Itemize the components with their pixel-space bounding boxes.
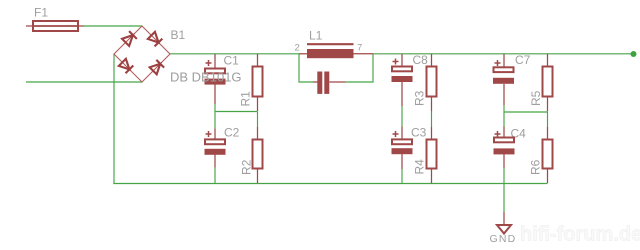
diode D bottom-right xyxy=(150,60,164,74)
diamond thin edges xyxy=(114,26,170,82)
wire fuse to bridge top xyxy=(84,25,143,27)
svg-text:C1: C1 xyxy=(224,54,240,68)
wire bridge left vertex down to bottom rail xyxy=(113,54,115,184)
svg-text:R3: R3 xyxy=(413,90,427,106)
inductor L1 xyxy=(299,44,373,58)
wire bottom rail xyxy=(113,183,547,185)
capacitor C2 xyxy=(205,129,226,168)
svg-text:R1: R1 xyxy=(239,91,253,107)
capacitor C7 xyxy=(493,54,514,105)
capacitor C1 xyxy=(205,54,226,104)
capacitor C8 xyxy=(392,54,413,106)
svg-text:R4: R4 xyxy=(413,159,427,175)
wire AC2 left to bridge bottom xyxy=(26,81,143,83)
capacitor C4 xyxy=(494,127,515,169)
svg-text:hifi-forum.de: hifi-forum.de xyxy=(520,224,640,246)
capacitor C3 xyxy=(392,127,413,170)
wire tie line section3 xyxy=(504,111,548,113)
resistor R3 xyxy=(427,54,437,111)
svg-text:GND: GND xyxy=(490,233,517,245)
svg-text:B1: B1 xyxy=(171,28,186,42)
wire C7 bottom net xyxy=(503,105,505,112)
junction dot right end xyxy=(631,51,637,57)
wire C4 top net xyxy=(503,112,505,127)
wire tie line section1 xyxy=(215,111,258,113)
diode D bottom-left xyxy=(119,59,133,73)
svg-text:F1: F1 xyxy=(34,6,48,20)
wire top rail A bridge to L1 xyxy=(170,53,299,55)
wire C3 bottom net xyxy=(401,169,403,184)
svg-text:R5: R5 xyxy=(529,90,543,106)
wire tank left drop xyxy=(299,54,313,82)
wire C1 bottom net xyxy=(214,104,216,112)
bridge rectifier B1 xyxy=(114,26,170,82)
fuse F1 xyxy=(26,21,84,31)
svg-text:7: 7 xyxy=(357,43,362,54)
svg-text:C7: C7 xyxy=(515,53,531,67)
wire tank right drop xyxy=(346,54,374,82)
diode D top-left xyxy=(122,31,137,46)
resistor R5 xyxy=(543,54,553,112)
ground symbol xyxy=(497,212,511,234)
svg-text:L1: L1 xyxy=(309,29,323,43)
wire R3 to R4 net xyxy=(431,111,433,127)
svg-text:C2: C2 xyxy=(224,126,240,140)
svg-text:R2: R2 xyxy=(240,159,254,175)
resistor R4 xyxy=(427,127,437,183)
wire C2 bottom net xyxy=(214,168,216,184)
wire C8 to C3 net xyxy=(401,106,403,127)
wire R6 top net xyxy=(547,112,549,127)
wire C4 bottom net xyxy=(503,168,505,184)
wire R2 top net xyxy=(257,112,259,128)
wire GND net xyxy=(503,184,505,213)
wire C2 top net xyxy=(214,112,216,129)
resistor R6 xyxy=(543,127,553,183)
capacitor tank (unpolarized) xyxy=(313,72,346,94)
diode D top-right xyxy=(148,32,162,46)
svg-text:C8: C8 xyxy=(413,53,429,67)
svg-text:C3: C3 xyxy=(411,126,427,140)
resistor R2 xyxy=(253,127,263,183)
resistor R1 xyxy=(253,54,263,111)
svg-text:2: 2 xyxy=(295,43,300,54)
wire top rail B L1 to right end xyxy=(373,53,634,55)
svg-text:DB DB101G: DB DB101G xyxy=(170,70,242,85)
svg-text:R6: R6 xyxy=(529,159,543,175)
